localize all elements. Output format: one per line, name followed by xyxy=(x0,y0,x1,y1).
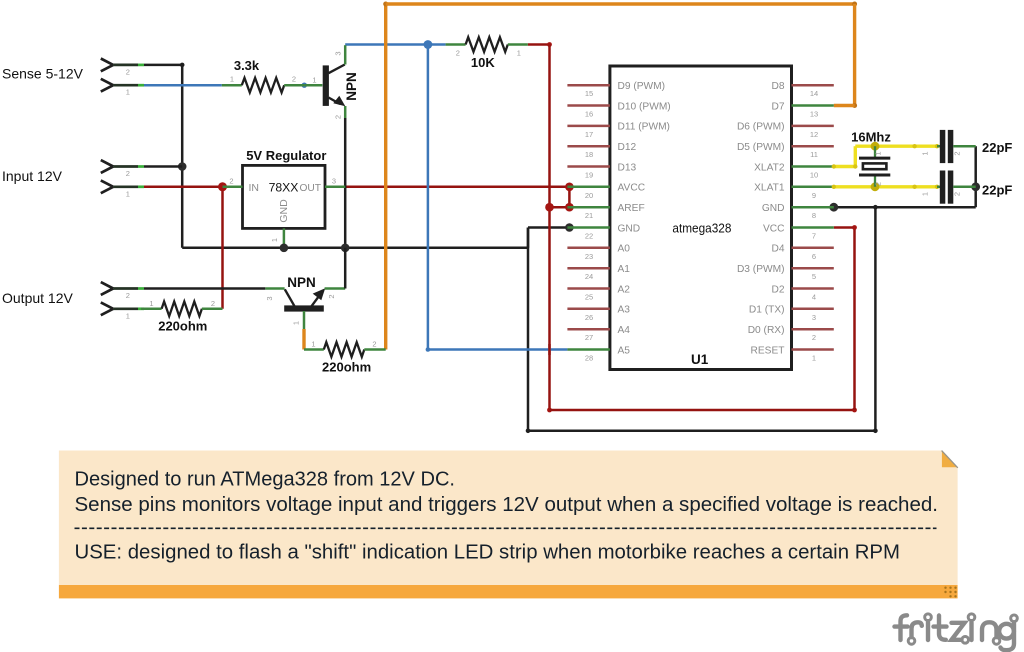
resistor R2 10K body xyxy=(466,37,508,52)
svg-text:VCC: VCC xyxy=(763,223,785,234)
wire red jog AVCC to AREF xyxy=(568,187,571,207)
pin 27 A4 (left leg) xyxy=(567,328,610,331)
svg-text:atmega328: atmega328 xyxy=(672,221,731,236)
wire caps vertical x=976 xyxy=(974,146,977,207)
svg-text:RESET: RESET xyxy=(751,345,785,356)
node junction input pin2 xyxy=(178,162,187,171)
wire Q2 emitter up to ground xyxy=(344,248,347,289)
node junction GND8 xyxy=(829,203,838,212)
svg-text:XLAT1: XLAT1 xyxy=(754,183,785,194)
svg-text:4: 4 xyxy=(812,293,816,302)
svg-text:GND: GND xyxy=(762,203,785,214)
svg-text:11: 11 xyxy=(810,150,818,159)
pin 8 GND (right leg) xyxy=(792,206,834,209)
svg-text:5: 5 xyxy=(812,272,816,281)
svg-text:Designed to run ATMega328 from: Designed to run ATMega328 from 12V DC. xyxy=(75,469,456,491)
pin 25 A2 (left leg) xyxy=(567,287,610,290)
svg-text:7: 7 xyxy=(812,232,816,241)
pin 22 GND (left leg) xyxy=(567,226,610,229)
resistor R4 lead 2 xyxy=(364,348,385,351)
node bend at (875,431) xyxy=(873,429,878,434)
node junction AREF bus xyxy=(545,203,554,212)
svg-text:3: 3 xyxy=(334,51,343,55)
wire input pin1 red to junction xyxy=(144,186,223,189)
pin 3 D1 (TX) (right leg) xyxy=(792,308,834,311)
node bend at (528,431) xyxy=(526,429,531,434)
svg-text:25: 25 xyxy=(585,293,593,302)
svg-text:D4: D4 xyxy=(771,244,784,255)
node bend red at (854,410) xyxy=(852,408,857,413)
pin 16 D10 (PWM) (left leg) xyxy=(567,104,610,107)
connector J1 pin 2 (Sense) xyxy=(101,59,113,65)
svg-text:2: 2 xyxy=(126,169,130,178)
wire output pin2 to Q2 collector xyxy=(144,287,265,290)
crystal X1 bottom lead xyxy=(874,175,876,187)
note bottom band xyxy=(59,585,958,598)
svg-text:2: 2 xyxy=(874,182,883,186)
wire Q1 emitter to ground xyxy=(344,118,347,248)
wire red bottom horizontal y=410 xyxy=(550,409,855,412)
fritzing logo xyxy=(895,614,1018,650)
svg-text:A5: A5 xyxy=(618,345,631,356)
svg-text:2: 2 xyxy=(126,67,130,76)
svg-text:16Mhz: 16Mhz xyxy=(851,129,891,144)
IC U1 atmega328 box xyxy=(610,66,792,370)
node bend yellow (834,187) xyxy=(832,185,836,189)
svg-text:A1: A1 xyxy=(618,264,631,275)
node bend at (182,65) xyxy=(180,63,185,68)
node bend orange (855,4) xyxy=(852,2,857,7)
transistor Q1 collector xyxy=(329,65,345,74)
svg-text:D10 (PWM): D10 (PWM) xyxy=(618,101,671,112)
svg-text:1: 1 xyxy=(126,88,130,97)
svg-text:NPN: NPN xyxy=(287,275,316,290)
crystal X1 pad 2 xyxy=(871,182,880,191)
node junction AVCC xyxy=(565,183,574,192)
node bend at (875,207) xyxy=(873,205,878,210)
node junction cap2 right xyxy=(971,182,980,191)
resistor R3 lead 2 xyxy=(202,308,223,311)
svg-text:D8: D8 xyxy=(771,81,784,92)
transistor Q2 emitter lead xyxy=(325,287,346,290)
node bend blue at (304,85) xyxy=(302,83,307,88)
svg-text:D5 (PWM): D5 (PWM) xyxy=(737,142,785,153)
svg-text:D7: D7 xyxy=(771,101,784,112)
node bend yellow (834,166) xyxy=(832,164,836,168)
node bend yellow (915,187) xyxy=(912,185,916,189)
pin 23 A0 (left leg) xyxy=(567,247,610,250)
svg-text:14: 14 xyxy=(810,89,818,98)
pin 10 XLAT2 (right leg) xyxy=(792,165,834,168)
svg-text:1: 1 xyxy=(149,299,153,308)
wire orange top horizontal xyxy=(386,2,855,5)
wire red jog AREF to bus xyxy=(550,206,570,209)
svg-text:1: 1 xyxy=(812,354,816,363)
svg-text:IN: IN xyxy=(249,182,260,194)
svg-text:20: 20 xyxy=(585,191,593,200)
wire yellow crystal to C1 xyxy=(875,144,937,147)
node bend red at (549,45) xyxy=(547,42,552,47)
svg-text:5V Regulator: 5V Regulator xyxy=(246,148,326,163)
svg-text:D11 (PWM): D11 (PWM) xyxy=(618,122,670,133)
svg-text:D3 (PWM): D3 (PWM) xyxy=(737,264,785,275)
svg-text:1: 1 xyxy=(270,238,279,242)
wire sense pin2 to vertical bus xyxy=(144,64,182,67)
wire blue bottom to A5 xyxy=(428,348,568,351)
node bend blue at (428,350) xyxy=(426,347,431,352)
connector J2 pin 1 (Input 12V) xyxy=(101,180,113,186)
svg-text:2: 2 xyxy=(953,151,962,155)
transistor Q1 base bar xyxy=(323,65,329,106)
pin 24 A1 (left leg) xyxy=(567,267,610,270)
svg-text:15: 15 xyxy=(585,89,593,98)
capacitor C2 22pF left lead xyxy=(937,186,940,189)
wire blue top from Q1 collector xyxy=(345,43,445,46)
connector J2 pin 2 (Input 12V) xyxy=(101,160,113,166)
svg-text:23: 23 xyxy=(585,252,593,261)
pin 11 D5 (PWM) (right leg) xyxy=(792,145,834,148)
svg-text:3: 3 xyxy=(265,296,274,300)
wire ground up to GND22 row xyxy=(527,228,530,248)
wire ground vertical x=528 down xyxy=(527,228,530,431)
wire red crossing over blue at x=549 xyxy=(548,344,551,355)
transistor Q2 emitter with arrow xyxy=(312,296,319,306)
svg-text:D2: D2 xyxy=(771,284,784,295)
pin 13 D7 (right leg) xyxy=(792,104,834,107)
resistor R2 lead 1 xyxy=(508,43,528,46)
svg-text:6: 6 xyxy=(812,252,816,261)
wire orange Q2 base segment xyxy=(302,329,305,350)
pin 9 XLAT1 (right leg) xyxy=(792,186,834,189)
svg-text:OUT: OUT xyxy=(299,183,321,194)
svg-text:D0 (RX): D0 (RX) xyxy=(748,325,785,336)
transistor Q2 collector diagonal xyxy=(285,289,295,306)
resistor R1 3.3k lead 1 xyxy=(222,84,242,87)
svg-text:Sense 5-12V: Sense 5-12V xyxy=(2,66,84,82)
svg-text:1: 1 xyxy=(311,340,315,349)
wire GND22 horizontal xyxy=(528,226,569,229)
capacitor C1 right lead xyxy=(953,145,975,148)
svg-text:A2: A2 xyxy=(618,284,631,295)
wire ground horizontal y=248 xyxy=(182,247,528,250)
svg-text:A3: A3 xyxy=(618,305,631,316)
crystal X1 body rect xyxy=(863,163,887,169)
svg-text:2: 2 xyxy=(292,75,296,84)
regulator pin GND lead xyxy=(283,228,286,247)
transistor Q2 collector lead xyxy=(265,287,284,290)
svg-text:22pF: 22pF xyxy=(982,183,1012,198)
svg-text:21: 21 xyxy=(585,211,593,220)
resistor R1 lead 2 xyxy=(284,84,304,87)
note band perforation dots xyxy=(944,587,946,589)
transistor Q2 base lead down xyxy=(303,311,306,329)
pin 20 AVCC (left leg) xyxy=(567,186,610,189)
wire input pin2 to bus xyxy=(144,165,182,168)
pin 21 AREF (left leg) xyxy=(567,206,610,209)
wire GND8 horizontal to caps corner xyxy=(834,206,976,209)
svg-text:Output 12V: Output 12V xyxy=(2,290,73,306)
svg-text:D6 (PWM): D6 (PWM) xyxy=(737,122,785,133)
node bend yellow (915,146) xyxy=(912,144,916,148)
svg-text:AREF: AREF xyxy=(618,203,645,214)
capacitor C1 plates xyxy=(940,130,946,163)
svg-text:13: 13 xyxy=(810,110,818,119)
connector J3 pin 1 (Output 12V) xyxy=(101,302,113,308)
wire red vertical x=222 to 220ohm xyxy=(221,187,224,309)
wire red 10K to vertical bus corner xyxy=(528,43,550,46)
svg-text:1: 1 xyxy=(312,76,316,85)
resistor R2 10K lead 2 xyxy=(446,43,466,46)
regulator pin OUT lead xyxy=(325,186,345,189)
wire ground bottom horizontal y=431 xyxy=(528,430,875,433)
node junction input red xyxy=(218,182,227,191)
note dashed separator xyxy=(75,527,937,529)
wire blue vertical x=428 xyxy=(427,45,430,350)
pin 6 D4 (right leg) xyxy=(792,247,834,250)
svg-text:22pF: 22pF xyxy=(982,140,1012,155)
svg-text:A0: A0 xyxy=(618,244,631,255)
svg-text:2: 2 xyxy=(812,333,816,342)
pin 4 D2 (right leg) xyxy=(792,287,834,290)
resistor R3 220ohm body xyxy=(162,302,202,317)
crystal X1 top plate xyxy=(859,157,890,160)
svg-text:27: 27 xyxy=(585,333,593,342)
transistor Q1 base lead xyxy=(304,84,322,87)
svg-text:2: 2 xyxy=(334,115,343,119)
node bend yellow (937,187) xyxy=(935,185,939,189)
svg-text:3.3k: 3.3k xyxy=(234,58,260,73)
crystal X1 top lead xyxy=(874,146,876,158)
svg-text:1: 1 xyxy=(126,189,130,198)
resistor R4 220ohm lead 1 xyxy=(304,348,324,351)
transistor Q2 base bar xyxy=(284,305,324,311)
svg-text:26: 26 xyxy=(585,313,593,322)
svg-text:1: 1 xyxy=(292,321,301,325)
crystal X1 pad 1 xyxy=(871,142,880,151)
wire ground vertical x=875 up xyxy=(874,207,877,431)
svg-text:16: 16 xyxy=(585,110,593,119)
svg-text:24: 24 xyxy=(585,272,593,281)
pin 26 A3 (left leg) xyxy=(567,308,610,311)
svg-text:2: 2 xyxy=(327,294,336,298)
svg-text:78XX: 78XX xyxy=(269,180,299,194)
node junction blue top xyxy=(424,40,433,49)
node junction emitter/ground xyxy=(341,244,350,253)
regulator pin IN lead xyxy=(223,186,243,189)
svg-text:2: 2 xyxy=(456,49,460,58)
svg-text:2: 2 xyxy=(211,299,215,308)
svg-text:1: 1 xyxy=(230,75,234,84)
note background xyxy=(59,451,958,586)
pin 15 D9 (PWM) (left leg) xyxy=(567,84,610,87)
wire vertical bus x=182 xyxy=(181,65,184,248)
svg-text:D9 (PWM): D9 (PWM) xyxy=(618,81,666,92)
svg-text:22: 22 xyxy=(585,232,593,241)
svg-text:10K: 10K xyxy=(471,55,495,70)
pin 18 D12 (left leg) xyxy=(567,145,610,148)
pin 7 VCC (right leg) xyxy=(792,226,834,229)
voltage regulator U2 box xyxy=(243,165,326,228)
wire orange vertical to D7 xyxy=(853,4,856,106)
wire red VCC horizontal xyxy=(834,226,855,229)
capacitor C2 right lead xyxy=(953,186,975,189)
pin 14 D8 (right leg) xyxy=(792,84,834,87)
pin 5 D3 (PWM) (right leg) xyxy=(792,267,834,270)
svg-text:D12: D12 xyxy=(618,142,637,153)
wire orange D7 horizontal xyxy=(834,104,855,107)
svg-text:D13: D13 xyxy=(618,162,637,173)
svg-text:USE: designed to flash a "shif: USE: designed to flash a "shift" indicat… xyxy=(75,541,901,563)
svg-text:19: 19 xyxy=(585,171,593,180)
pin 1 RESET (right leg) xyxy=(792,348,834,351)
svg-text:3: 3 xyxy=(332,177,336,186)
wire yellow XLAT1 through crystal to C2 xyxy=(834,185,937,188)
svg-text:2: 2 xyxy=(953,192,962,196)
node bend red at VCC corner xyxy=(852,225,857,230)
pin 2 D0 (RX) (right leg) xyxy=(792,328,834,331)
capacitor C2 plates xyxy=(940,171,946,204)
capacitor C1 22pF left lead xyxy=(937,145,940,148)
svg-text:AVCC: AVCC xyxy=(618,183,646,194)
node bend yellow (855,166) xyxy=(853,164,857,168)
svg-text:28: 28 xyxy=(585,354,593,363)
connector J3 pin 2 (Output 12V) xyxy=(101,282,113,288)
svg-text:18: 18 xyxy=(585,150,593,159)
svg-text:12: 12 xyxy=(810,130,818,139)
svg-text:2: 2 xyxy=(229,177,233,186)
node bend red at (549,410) xyxy=(547,408,552,413)
resistor R4 220ohm body xyxy=(324,342,365,357)
svg-text:XLAT2: XLAT2 xyxy=(754,162,785,173)
svg-text:2: 2 xyxy=(126,291,130,300)
node bend orange (386,4) xyxy=(383,2,388,7)
svg-text:GND: GND xyxy=(618,223,641,234)
svg-text:220ohm: 220ohm xyxy=(158,319,207,334)
resistor R3 220ohm lead 1 xyxy=(141,308,162,311)
resistor R1 3.3k body xyxy=(242,78,284,93)
node junction regulator GND xyxy=(280,244,289,253)
svg-text:1: 1 xyxy=(874,151,883,155)
transistor Q1 emitter with arrow xyxy=(329,98,341,105)
svg-text:220ohm: 220ohm xyxy=(322,360,371,375)
svg-text:17: 17 xyxy=(585,130,593,139)
svg-text:1: 1 xyxy=(921,192,930,196)
wire orange vertical x=386 xyxy=(384,4,387,350)
node bend yellow (937,146) xyxy=(935,144,939,148)
wire regulator OUT red to AVCC xyxy=(345,186,569,189)
svg-text:2: 2 xyxy=(372,340,376,349)
svg-text:U1: U1 xyxy=(691,352,709,367)
wire yellow XLAT2 to crystal xyxy=(834,165,856,168)
svg-text:1: 1 xyxy=(126,311,130,320)
svg-text:NPN: NPN xyxy=(344,72,359,101)
svg-text:1: 1 xyxy=(517,49,521,58)
node bend orange at D7 xyxy=(852,103,857,108)
wire red vertical x=854 to VCC xyxy=(853,228,856,411)
svg-text:8: 8 xyxy=(812,211,816,220)
node junction GND22 xyxy=(565,223,574,232)
svg-text:D1 (TX): D1 (TX) xyxy=(749,305,785,316)
svg-text:10: 10 xyxy=(810,171,818,180)
wire red vertical bus x=549 xyxy=(548,45,551,411)
pin 17 D11 (PWM) (left leg) xyxy=(567,125,610,128)
pin 28 A5 (left leg) xyxy=(567,348,610,351)
wire sense pin1 blue xyxy=(144,84,222,87)
svg-text:Input 12V: Input 12V xyxy=(2,168,63,184)
crystal X1 bottom plate xyxy=(859,174,890,177)
svg-text:Sense pins monitors voltage in: Sense pins monitors voltage input and tr… xyxy=(75,494,939,516)
node junction AREF xyxy=(565,203,574,212)
pin 19 D13 (left leg) xyxy=(567,165,610,168)
svg-text:1: 1 xyxy=(921,151,930,155)
svg-text:A4: A4 xyxy=(618,325,631,336)
note folded corner xyxy=(942,451,958,467)
svg-text:9: 9 xyxy=(812,191,816,200)
pin 12 D6 (PWM) (right leg) xyxy=(792,125,834,128)
connector J1 pin 1 (Sense) xyxy=(101,79,113,85)
svg-text:3: 3 xyxy=(812,313,816,322)
svg-text:GND: GND xyxy=(278,199,290,223)
